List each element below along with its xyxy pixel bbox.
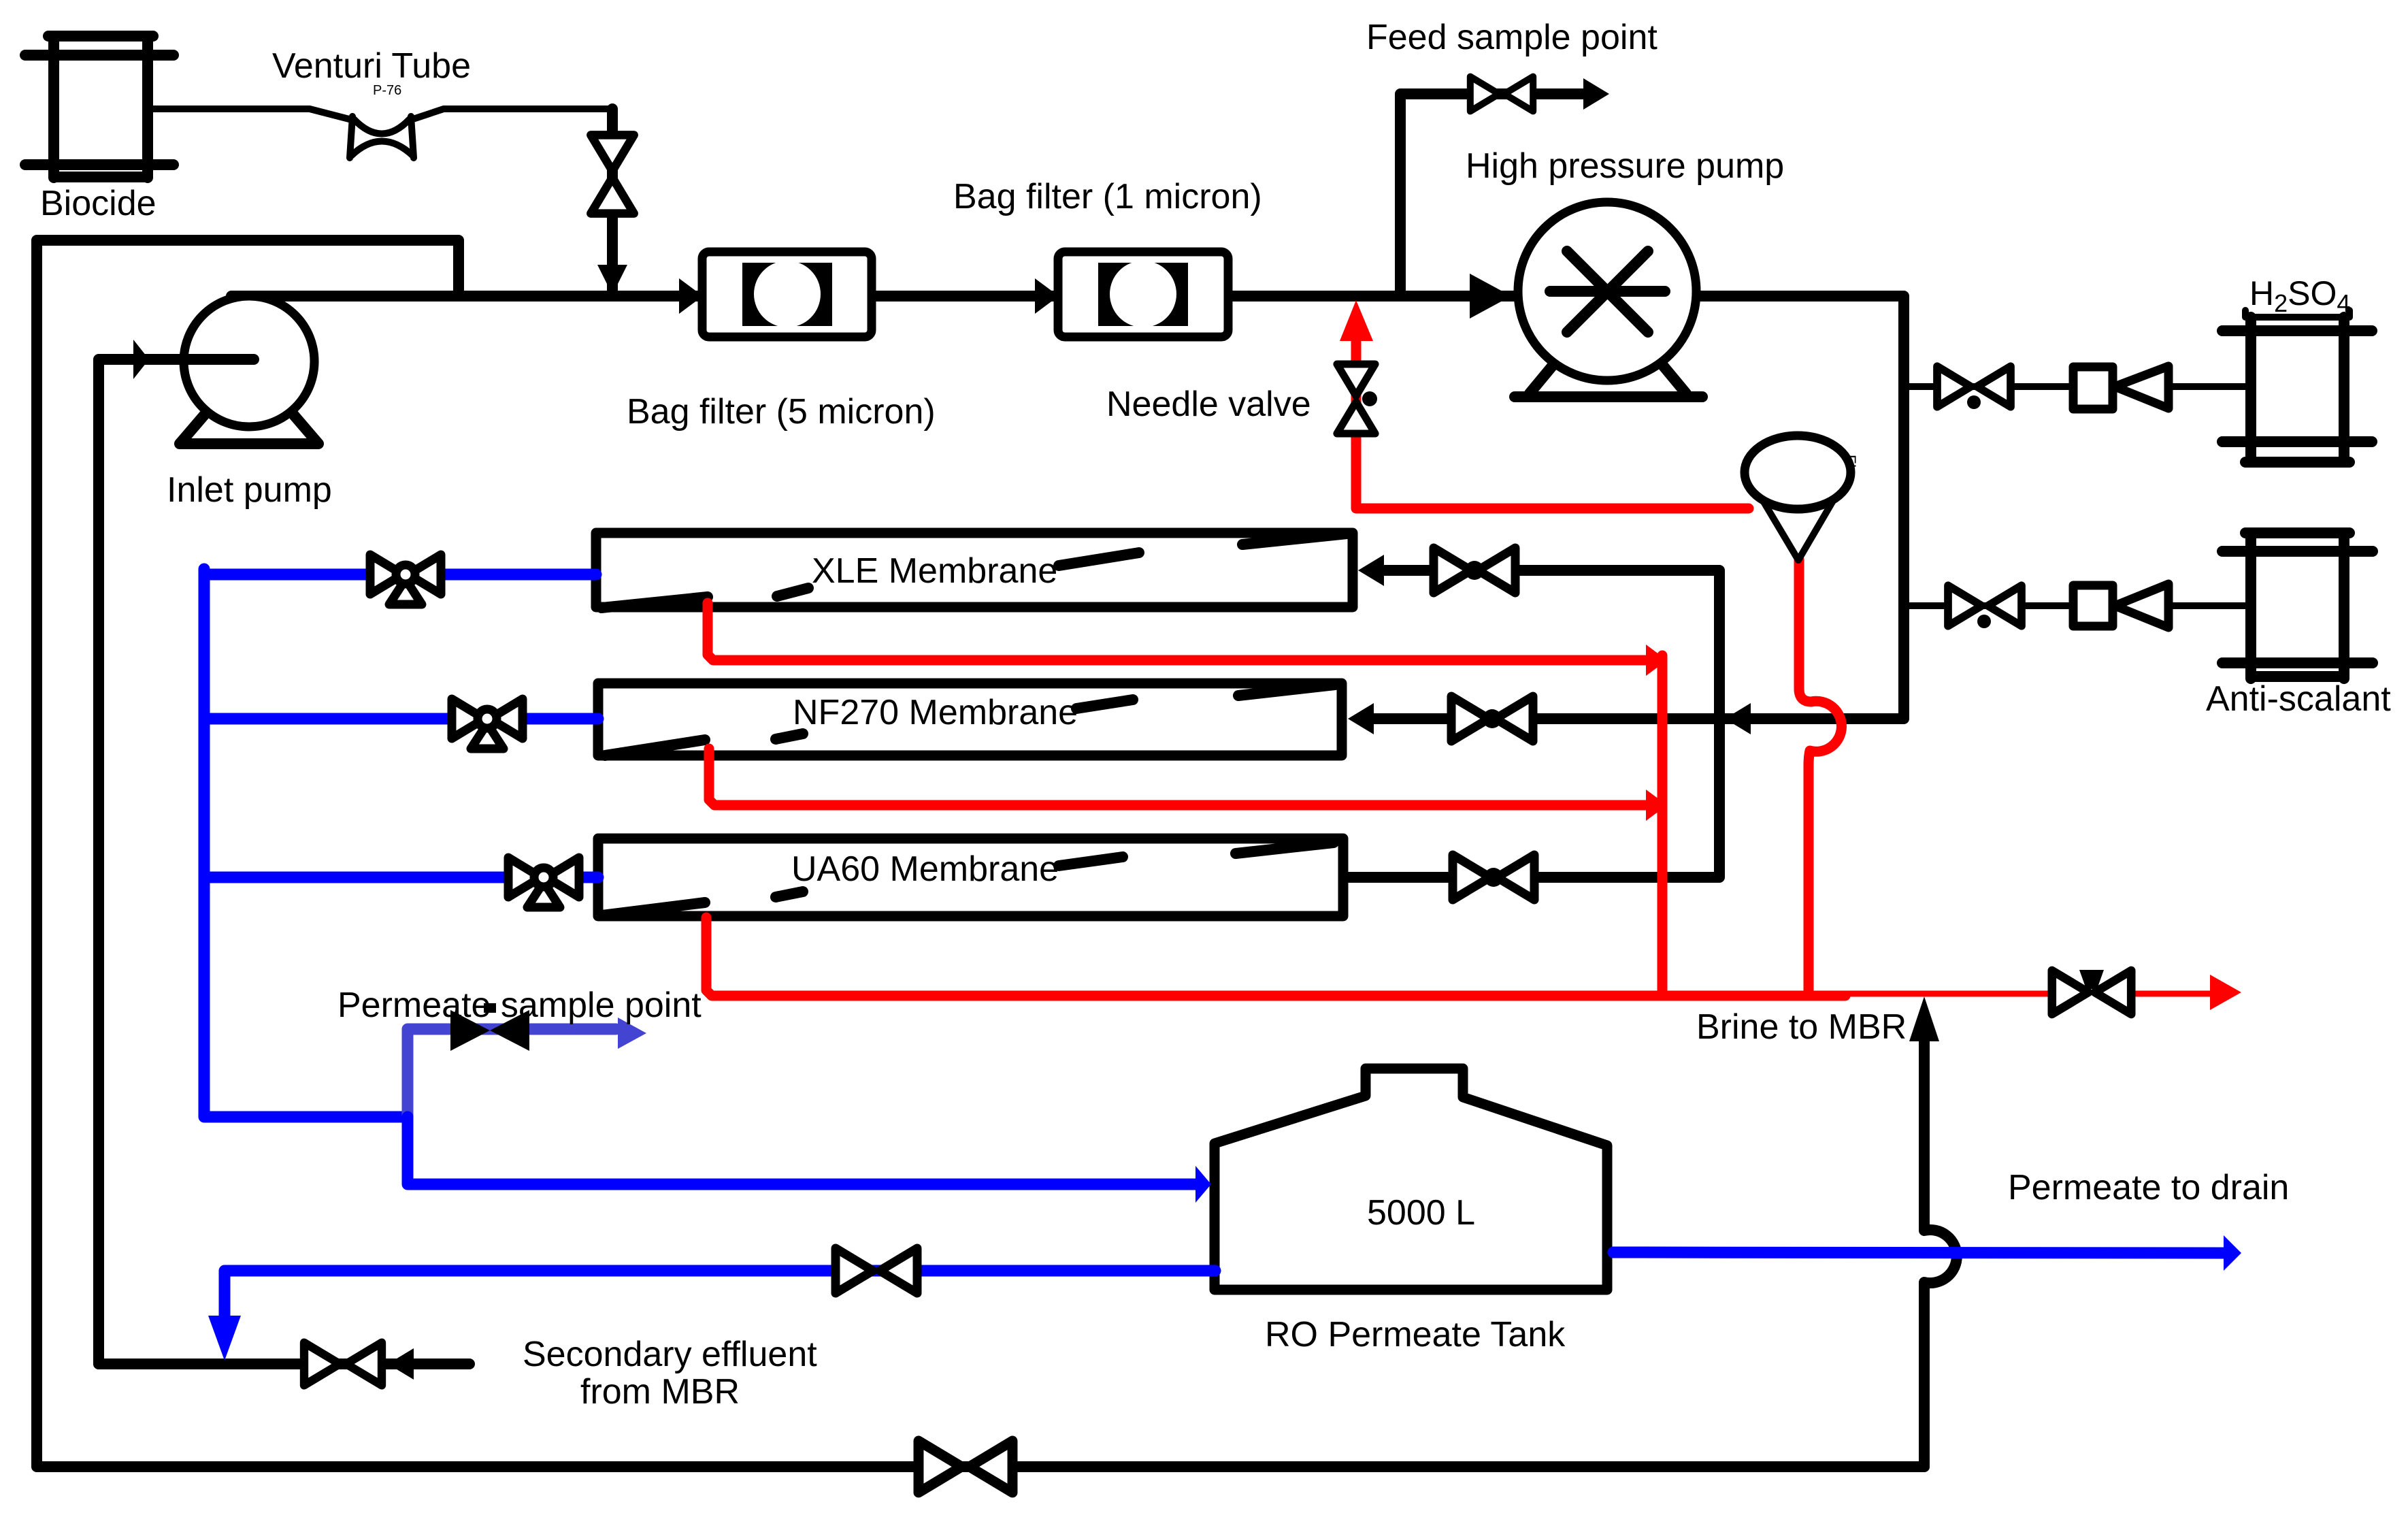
svg-text:Secondary effluent: Secondary effluent xyxy=(523,1335,817,1374)
svg-text:Biocide: Biocide xyxy=(40,184,156,223)
svg-text:P-76: P-76 xyxy=(373,83,401,98)
svg-text:Needle valve: Needle valve xyxy=(1106,385,1311,424)
svg-text:High pressure pump: High pressure pump xyxy=(1466,146,1784,186)
svg-text:Feed sample point: Feed sample point xyxy=(1366,18,1657,57)
svg-text:Permeate sample point: Permeate sample point xyxy=(337,986,702,1025)
svg-text:NF270 Membrane: NF270 Membrane xyxy=(793,693,1078,732)
svg-text:5000 L: 5000 L xyxy=(1367,1193,1475,1233)
svg-text:Permeate to drain: Permeate to drain xyxy=(2008,1168,2289,1207)
svg-text:Anti-scalant: Anti-scalant xyxy=(2206,679,2391,719)
svg-text:FI: FI xyxy=(1842,455,1859,468)
svg-text:Bag filter (5 micron): Bag filter (5 micron) xyxy=(627,392,936,432)
svg-text:Bag filter (1 micron): Bag filter (1 micron) xyxy=(953,177,1262,216)
svg-text:Brine to MBR: Brine to MBR xyxy=(1696,1007,1907,1047)
svg-text:XLE Membrane: XLE Membrane xyxy=(812,551,1057,591)
svg-text:UA60 Membrane: UA60 Membrane xyxy=(791,849,1059,889)
svg-text:Inlet pump: Inlet pump xyxy=(167,470,332,510)
svg-text:H2SO4: H2SO4 xyxy=(2249,274,2350,317)
svg-text:from MBR: from MBR xyxy=(580,1372,740,1412)
svg-text:RO Permeate Tank: RO Permeate Tank xyxy=(1265,1315,1566,1354)
svg-text:Venturi Tube: Venturi Tube xyxy=(272,46,471,86)
